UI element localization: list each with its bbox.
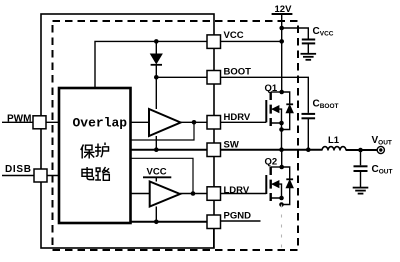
dashed converter boundary box — [53, 21, 299, 250]
transistor Q1 body arrow — [272, 106, 279, 113]
power bar VCC — [143, 176, 171, 178]
svg-text:PGND: PGND — [224, 211, 252, 222]
wire PGND internal — [131, 221, 208, 223]
svg-text:CVCC: CVCC — [313, 26, 334, 38]
node HDRV output — [192, 120, 197, 125]
inductor L1 — [322, 147, 346, 151]
pin LDRV square — [207, 187, 221, 201]
node Q2 source — [279, 196, 284, 201]
node SW buffer ground — [154, 147, 159, 152]
wire L1 to Vout — [346, 149, 377, 151]
node PGND buffer ground — [154, 220, 159, 225]
terminal Vout — [377, 146, 384, 153]
wire Cvcc branch — [282, 28, 309, 39]
IC outer solid boundary box — [41, 14, 214, 248]
wire PGND external stub — [221, 220, 261, 222]
svg-text:VOUT: VOUT — [372, 135, 392, 147]
node Q2 drain — [279, 165, 284, 170]
capacitor Cout — [360, 150, 362, 165]
wire BOOT to Cboot — [221, 77, 309, 113]
wire HDRV feedback to block — [131, 122, 195, 140]
pin DISB square — [34, 169, 47, 182]
power bar 12V — [272, 13, 293, 15]
wire SW to Q2 drain — [281, 150, 283, 167]
wire PWM input — [2, 121, 59, 123]
wire SW internal — [131, 149, 208, 151]
node Q2 diode anode — [279, 202, 284, 207]
pin BOOT square — [207, 71, 221, 85]
transistor Q1 channel segments — [270, 92, 272, 126]
svg-text:DISB: DISB — [5, 164, 32, 175]
wire HDRV to Q1 gate — [221, 121, 267, 123]
svg-text:VCC: VCC — [147, 167, 167, 178]
node BOOT / buffer supply — [154, 75, 159, 80]
pin VCC square — [207, 35, 221, 49]
node SW phase — [279, 147, 284, 152]
svg-text:HDRV: HDRV — [224, 112, 251, 123]
node VCC rail — [279, 39, 284, 44]
node Q1 drain — [279, 90, 284, 95]
wire PGND pin to IC box bottom — [213, 229, 215, 249]
wire Q1 source to SW — [281, 123, 283, 150]
wire SW external — [221, 149, 323, 151]
wire 12V rail down — [281, 14, 283, 41]
transistor Q1 drain stub — [271, 91, 282, 93]
diode D1 bootstrap anode wire — [155, 41, 157, 54]
svg-text:Overlap: Overlap — [73, 116, 128, 131]
label 电路 (hand-drawn strokes) — [82, 167, 110, 180]
wire LDRV output — [180, 193, 207, 195]
buffer A1 high-side driver — [149, 109, 181, 136]
transistor Q2 gate bar — [265, 175, 267, 194]
node Q1 diode anode — [279, 127, 284, 132]
node Q1 source — [279, 121, 284, 126]
wire LDRV feedback to block — [131, 158, 194, 193]
node LDRV output — [191, 191, 196, 196]
svg-text:L1: L1 — [328, 135, 340, 146]
svg-text:PWM: PWM — [7, 113, 31, 124]
svg-text:BOOT: BOOT — [224, 66, 252, 77]
diode Q1 body diode — [282, 92, 290, 130]
capacitor Cboot — [302, 113, 316, 115]
wire VCC pin to 12V node — [221, 40, 282, 42]
svg-text:Q2: Q2 — [265, 157, 278, 168]
diode Q2 body diode — [282, 167, 290, 205]
wire buffer A2 supply stub — [155, 177, 157, 181]
label 保护 (hand-drawn strokes) — [81, 143, 109, 159]
buffer A2 low-side driver — [150, 182, 180, 207]
pin PGND square — [207, 215, 221, 229]
wire LDRV to Q2 gate — [221, 193, 267, 195]
svg-text:COUT: COUT — [372, 164, 393, 176]
pin SW square — [207, 143, 221, 157]
ground under Cout — [353, 188, 369, 194]
transistor Q1 gate bar — [265, 100, 267, 122]
node diode anode on VCC line — [154, 39, 159, 44]
node 12V Cvcc tap — [279, 26, 284, 31]
transistor Q2 channel segments — [270, 167, 272, 201]
wire 12V rail to Q1 drain — [281, 41, 283, 92]
wire VCC internal (box top to VCC pin) — [95, 41, 207, 88]
svg-text:LDRV: LDRV — [224, 185, 250, 196]
capacitor Cvcc — [302, 39, 315, 41]
wire buffer A1 input — [131, 121, 150, 123]
svg-text:VCC: VCC — [224, 30, 244, 41]
block U1 Overlap protection circuit — [59, 88, 131, 223]
node Vout — [358, 148, 363, 153]
wire Q2 source to ground rail (faint) — [281, 205, 283, 251]
pin PWM square — [33, 116, 46, 129]
transistor Q2 body arrow — [272, 181, 279, 188]
ground under Cvcc — [301, 54, 317, 60]
node Cboot bottom on SW — [306, 147, 311, 152]
wire BOOT internal — [156, 76, 207, 78]
transistor Q2 drain stub — [271, 166, 282, 168]
wire buffer A1 supply stub — [155, 77, 157, 109]
wire buffer A2 input — [131, 193, 150, 195]
wire buffer A2 ground stub — [155, 207, 157, 222]
diode D1 bootstrap — [151, 54, 162, 64]
wire DISB input — [2, 175, 59, 177]
pin HDRV square — [207, 116, 221, 130]
wire HDRV output — [181, 121, 207, 123]
wire buffer A1 ground stub to SW — [155, 136, 157, 150]
svg-text:CBOOT: CBOOT — [313, 99, 339, 111]
